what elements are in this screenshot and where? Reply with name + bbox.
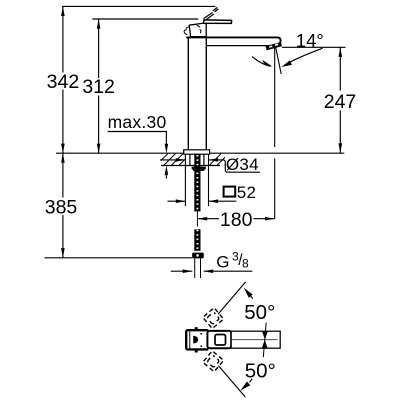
lever shaft double lines xyxy=(204,12,213,18)
dimension 52: left arrow xyxy=(168,200,186,202)
dimension line 247 xyxy=(339,47,341,90)
white gaps in cube edge xyxy=(208,328,214,331)
leader from 14deg line xyxy=(284,48,323,65)
mounting nut xyxy=(192,167,206,171)
svg-text:247: 247 xyxy=(324,91,357,113)
arrow 342 top xyxy=(61,6,65,16)
deck bottom line xyxy=(161,165,220,167)
arrow max30 down (deck top) xyxy=(165,144,169,154)
svg-text:14°: 14° xyxy=(296,30,324,51)
faucet body right edge xyxy=(205,38,207,150)
handle cube (front view) xyxy=(189,23,206,37)
14 degree reference line xyxy=(282,46,346,48)
svg-text:180: 180 xyxy=(220,209,253,231)
arrow 247 top xyxy=(339,47,343,57)
hole wall / 52 extension line right xyxy=(208,154,210,206)
top view spout arm xyxy=(231,331,280,348)
dimension G3/8 arrows xyxy=(171,270,193,272)
svg-text:312: 312 xyxy=(82,76,115,98)
extension line top (handle tip height 342) xyxy=(62,5,215,7)
lever tip marks xyxy=(213,7,217,10)
spout outlet extension line (vertical) xyxy=(274,48,276,147)
svg-text:max.30: max.30 xyxy=(108,112,167,132)
deck reference line xyxy=(56,152,344,154)
lever blade xyxy=(204,20,232,24)
14 degree slanted stream line xyxy=(275,46,281,74)
upper 50deg leader arrow xyxy=(250,295,253,299)
dimension 52: right arrow xyxy=(209,200,237,202)
threaded hose upper section xyxy=(194,154,200,211)
aerator (tilted) xyxy=(265,42,281,50)
arrow 385 bottom xyxy=(61,248,65,258)
extension line (body top height 312) xyxy=(92,18,198,20)
pinch arrow down xyxy=(262,331,268,340)
cube left squiggle xyxy=(184,27,189,35)
top view lever inner square xyxy=(215,335,226,346)
top view cube body xyxy=(186,330,209,349)
svg-text:50°: 50° xyxy=(245,359,276,382)
svg-text:52: 52 xyxy=(237,183,257,202)
arrow 180 left xyxy=(198,217,208,221)
top view lever pad xyxy=(207,331,231,348)
dimension 180 line xyxy=(198,218,219,220)
rotated handle position lower (dashed) xyxy=(203,351,224,372)
faucet body left edge xyxy=(187,38,189,150)
label square52 symbol xyxy=(224,187,236,197)
svg-text:50°: 50° xyxy=(244,301,275,324)
shank outline right xyxy=(203,154,205,165)
cube top nub xyxy=(195,327,198,329)
dimension diam34: right arrow + leader xyxy=(209,158,219,162)
upper 50deg ray xyxy=(218,282,246,314)
dimension line 342 xyxy=(62,6,64,72)
spout underside xyxy=(207,45,269,47)
threaded hose lower section xyxy=(194,229,200,251)
spout arm center line xyxy=(232,339,278,341)
cube bottom nub xyxy=(195,350,198,352)
shank outline left xyxy=(189,154,191,165)
arrow 247 bottom xyxy=(339,143,343,153)
arrow 180 right xyxy=(265,217,275,221)
arrow 342 bottom xyxy=(61,144,65,154)
handle cube sketch marks xyxy=(197,25,200,27)
arrow 312 top xyxy=(97,19,101,29)
arrow max30 up (deck bottom) xyxy=(165,166,169,176)
spout top edge xyxy=(186,37,280,43)
max.30 underline leader xyxy=(108,132,167,145)
swing pinch line xyxy=(263,323,266,358)
swing arc left xyxy=(252,57,271,67)
lower 50deg leader arrow xyxy=(250,379,253,383)
svg-text:385: 385 xyxy=(45,196,78,218)
base flange xyxy=(184,150,210,154)
hole wall / 52 extension line left xyxy=(184,154,186,206)
cube small dots xyxy=(200,333,202,335)
hose end nut xyxy=(192,253,204,259)
supply end reference line (385 bottom) xyxy=(45,257,193,259)
arrow 312 bottom xyxy=(97,144,101,154)
pinch arrow up xyxy=(262,340,268,349)
dimension diam34: left arrow xyxy=(160,159,185,161)
svg-text:Ø34: Ø34 xyxy=(226,155,259,174)
cube pivot D mark xyxy=(193,336,198,344)
G3/8 nipple xyxy=(194,258,196,278)
lower 50deg ray xyxy=(219,366,246,397)
dimension line 385 xyxy=(62,153,64,197)
rotated handle position upper (dashed) xyxy=(203,308,224,329)
dimension line 312 xyxy=(98,19,100,78)
svg-text:342: 342 xyxy=(47,71,80,93)
arrow 385 top xyxy=(61,153,65,163)
cube inner left line xyxy=(189,332,191,349)
hose center line xyxy=(196,211,198,227)
